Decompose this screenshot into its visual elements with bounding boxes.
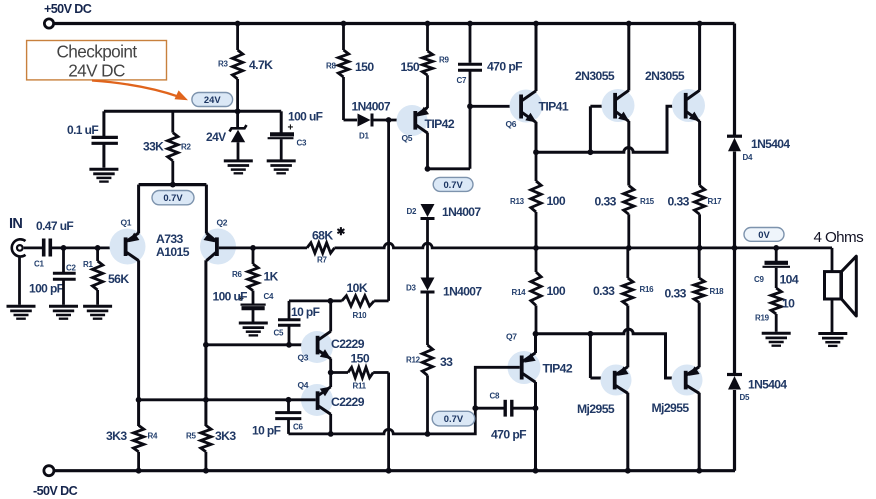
transistor Q7 halo <box>508 351 541 384</box>
wire Q2 emitter up <box>205 185 208 234</box>
svg-text:0.33: 0.33 <box>593 284 615 298</box>
node dot Q2 collector bus <box>203 342 209 348</box>
resistor R13 <box>531 181 541 212</box>
svg-text:0.7V: 0.7V <box>444 413 464 424</box>
wire Q2 collector down <box>204 260 207 426</box>
transistor Mj2955b <box>684 371 688 390</box>
node dot Q3-Q4-R11 <box>328 370 334 376</box>
svg-text:R10: R10 <box>353 311 368 320</box>
wire D5 to bottom rail <box>733 390 736 471</box>
wire Q3 emitter down <box>329 359 332 373</box>
node dot Q4 collector bus <box>328 431 334 437</box>
capacitor C5 lead <box>288 326 291 345</box>
svg-text:C2: C2 <box>66 264 76 273</box>
svg-text:C7: C7 <box>457 76 467 85</box>
diode D3 <box>421 278 435 291</box>
resistor R12 <box>422 345 432 375</box>
resistor R14 <box>531 272 541 306</box>
resistor R9 <box>422 51 432 75</box>
speaker 4 ohm <box>825 272 841 299</box>
wire Q6 collector up <box>535 24 538 92</box>
resistor R2 bottom lead <box>171 161 174 185</box>
wire 24V bus <box>104 110 281 113</box>
resistor R17 <box>694 186 704 215</box>
svg-text:C5: C5 <box>274 329 284 338</box>
svg-text:24V: 24V <box>204 94 221 105</box>
ground speaker <box>818 332 847 335</box>
resistor R8 bottom lead <box>342 77 345 120</box>
svg-text:R2: R2 <box>181 143 191 152</box>
resistor R16 top lead <box>626 248 629 278</box>
transistor Q6 halo <box>510 90 543 123</box>
transistor Q3 halo <box>301 331 333 363</box>
node dot C8 branch <box>472 405 478 411</box>
node dot Q7 collector rail <box>533 468 539 474</box>
wire output to speaker <box>831 248 834 272</box>
node dot Mj2955a base branch <box>588 331 594 337</box>
svg-text:✱: ✱ <box>337 226 346 238</box>
ground input <box>7 305 36 308</box>
wire Q7 base bias bus with hop <box>289 367 520 434</box>
resistor R3 <box>232 50 242 79</box>
wire speaker to ground <box>831 299 834 332</box>
diode D2 <box>421 204 435 217</box>
node dot Q5 collector <box>425 166 431 172</box>
svg-text:0.33: 0.33 <box>665 287 687 301</box>
wire Q1 emitter up <box>137 185 140 234</box>
wire Mj2955b emitter up <box>698 303 701 368</box>
transistor Q5 halo <box>397 105 428 136</box>
wire C9 to R19 <box>775 268 778 288</box>
resistor R1 <box>92 261 102 290</box>
svg-text:24V DC: 24V DC <box>68 61 125 81</box>
svg-text:2N3055: 2N3055 <box>575 69 615 83</box>
capacitor C1 <box>42 239 46 257</box>
node dot R3 rail <box>235 21 241 27</box>
svg-text:Q3: Q3 <box>298 353 309 363</box>
resistor R6 <box>248 264 258 291</box>
resistor R7 <box>307 243 335 253</box>
capacitor C7 <box>458 63 482 66</box>
node dot 24V <box>235 108 241 114</box>
svg-text:IN: IN <box>9 216 22 232</box>
node dot Q7 emitter <box>533 331 539 337</box>
svg-text:100: 100 <box>547 284 566 298</box>
transistor Q2 halo <box>200 229 236 265</box>
svg-text:R8: R8 <box>326 62 336 71</box>
svg-text:0V: 0V <box>758 229 770 240</box>
svg-text:R6: R6 <box>232 270 242 279</box>
checkpoint arrow <box>92 81 179 97</box>
svg-text:Q5: Q5 <box>402 133 413 143</box>
wire Q4 emitter up <box>329 373 332 388</box>
node 0.7V pill B <box>433 177 473 191</box>
resistor R1 top lead <box>96 248 99 261</box>
node dot R4 rail <box>136 468 142 474</box>
svg-text:2N3055: 2N3055 <box>645 69 685 83</box>
wire R19 to ground <box>775 314 778 332</box>
node dot Mj2955b rail <box>696 468 702 474</box>
input connector <box>12 239 26 256</box>
resistor R8 <box>338 50 348 77</box>
svg-text:1K: 1K <box>264 270 279 284</box>
capacitor C9 lead <box>775 248 778 261</box>
svg-text:C2229: C2229 <box>331 337 365 351</box>
svg-text:Checkpoint: Checkpoint <box>57 42 138 62</box>
svg-text:470 pF: 470 pF <box>487 60 522 74</box>
capacitor C8 right lead <box>514 407 536 410</box>
resistor R13 top lead <box>535 152 538 181</box>
wire R1 to ground <box>96 290 99 305</box>
svg-text:R5: R5 <box>186 432 196 441</box>
node dot 2N3055b rail <box>697 21 703 27</box>
wire Mj2955b collector down <box>698 393 701 471</box>
wire Q5c to C7 node <box>428 167 471 170</box>
node dot C9 branch <box>773 245 779 251</box>
node dot R17 output <box>697 245 703 251</box>
node dot D1-Q5 <box>386 117 392 123</box>
capacitor C8 <box>504 400 507 417</box>
svg-text:A733: A733 <box>156 232 184 246</box>
node dot Q2 collector bus2 <box>203 397 209 403</box>
resistor R18 <box>694 278 704 303</box>
resistor R13 bottom lead <box>535 212 538 248</box>
svg-text:100 uF: 100 uF <box>288 110 323 124</box>
node dot C2 <box>61 245 67 251</box>
svg-text:10 pF: 10 pF <box>291 305 320 319</box>
node 0.7V pill C <box>432 411 475 426</box>
svg-text:10 pF: 10 pF <box>252 424 281 438</box>
svg-text:10K: 10K <box>347 281 368 295</box>
transistor 2N3055a <box>613 93 617 119</box>
wire C7 node to Q6 base <box>470 105 519 108</box>
node dot Q3 collector node <box>328 298 334 304</box>
resistor R12 bottom lead <box>426 375 429 434</box>
svg-text:R11: R11 <box>353 382 367 391</box>
node dot R11 rail <box>386 468 392 474</box>
wire C4 to ground <box>252 310 255 322</box>
svg-text:150: 150 <box>401 60 420 74</box>
diode D5 <box>727 373 742 376</box>
svg-text:C8: C8 <box>490 392 500 401</box>
svg-text:100: 100 <box>547 194 566 208</box>
wire 2N3055b emitter down <box>698 121 701 186</box>
resistor R5 bottom lead <box>204 452 207 471</box>
svg-text:0.1 uF: 0.1 uF <box>67 123 98 137</box>
svg-text:33: 33 <box>440 355 453 369</box>
node 0V pill <box>744 228 784 242</box>
resistor R3 top lead <box>236 24 239 51</box>
wire top rail corner down <box>733 24 736 137</box>
wire D4 to output <box>733 152 736 248</box>
svg-text:104: 104 <box>780 273 799 287</box>
+50V supply terminal <box>44 19 53 28</box>
node dot 2N3055a rail <box>626 21 632 27</box>
svg-text:3K3: 3K3 <box>106 429 127 443</box>
capacitor C7 bottom lead <box>469 71 472 169</box>
capacitor C4 <box>241 304 266 306</box>
node dot R6 <box>250 245 256 251</box>
svg-text:R18: R18 <box>710 287 725 296</box>
svg-text:R3: R3 <box>218 59 228 68</box>
svg-text:Mj2955: Mj2955 <box>577 402 615 416</box>
zener diode 24V lead <box>236 111 239 127</box>
svg-text:C2229: C2229 <box>331 395 365 409</box>
node dot C8 to Q7 collector <box>533 405 539 411</box>
wire 0.7V tail bus <box>139 183 207 186</box>
svg-text:100 uF: 100 uF <box>213 290 248 304</box>
wire Q5 collector down <box>426 133 429 169</box>
resistor R8 top lead <box>342 24 345 51</box>
resistor R2 <box>168 133 178 161</box>
transistor Q2 <box>215 237 219 256</box>
svg-text:1N4007: 1N4007 <box>442 205 481 219</box>
resistor R10 left lead <box>330 299 341 302</box>
capacitor C5 top lead <box>288 301 291 321</box>
ground C3 <box>267 159 296 162</box>
capacitor C3 lead <box>280 111 283 132</box>
wire Q6 emitter down <box>535 122 538 152</box>
svg-text:R7: R7 <box>317 256 327 265</box>
wire output bus with hops <box>335 243 833 248</box>
node dot R1 <box>95 245 101 251</box>
capacitor C6 lead <box>287 400 290 412</box>
resistor R2 top lead <box>171 111 174 132</box>
node dot R9 rail <box>425 21 431 27</box>
transistor Q4 <box>316 391 320 410</box>
transistor Mj2955b halo <box>672 365 703 396</box>
svg-text:10: 10 <box>782 297 795 311</box>
resistor R9 top lead <box>426 24 429 52</box>
node dot D4 output <box>732 245 738 251</box>
resistor R11 right lead <box>373 371 388 374</box>
node dot Q6 collector rail <box>533 21 539 27</box>
wire output to D5 <box>733 248 736 375</box>
svg-text:D1: D1 <box>359 132 369 141</box>
diode D4 <box>727 135 742 138</box>
svg-text:C1: C1 <box>34 260 44 269</box>
resistor R6 bottom lead <box>252 291 255 304</box>
svg-text:C4: C4 <box>264 292 274 301</box>
wire D3 to R12 <box>426 293 429 346</box>
svg-text:3K3: 3K3 <box>215 429 236 443</box>
wire Mj2955a base drop <box>589 334 592 378</box>
svg-text:24V: 24V <box>206 130 226 144</box>
svg-text:0.7V: 0.7V <box>163 192 183 203</box>
svg-text:D2: D2 <box>407 207 417 216</box>
svg-text:C9: C9 <box>754 275 764 284</box>
ground R19 <box>762 332 791 335</box>
resistor R10 <box>342 296 374 306</box>
node dot Q6 emitter <box>533 149 539 155</box>
wire Q3 collector up <box>329 301 332 332</box>
svg-text:Mj2955: Mj2955 <box>652 401 690 415</box>
svg-text:56K: 56K <box>108 272 129 286</box>
resistor R11 left lead <box>331 371 348 374</box>
svg-text:0.47 uF: 0.47 uF <box>36 219 73 233</box>
wire top +50V rail <box>54 22 735 25</box>
resistor R4 <box>133 425 143 451</box>
wire input shield to ground <box>18 257 21 305</box>
svg-text:Q4: Q4 <box>298 380 309 390</box>
wire Mj2955a emitter up <box>626 306 629 368</box>
wire Q1 collector down <box>137 260 140 426</box>
node dot 2N3055a base branch <box>588 149 594 155</box>
svg-text:R9: R9 <box>439 56 449 65</box>
wire D2 to D3 <box>426 219 429 278</box>
svg-text:Q7: Q7 <box>506 332 517 342</box>
capacitor C3 <box>270 132 294 136</box>
-50V supply terminal <box>44 466 54 476</box>
ground R1 <box>83 305 112 308</box>
svg-text:150: 150 <box>351 352 370 366</box>
svg-text:+50V DC: +50V DC <box>44 2 92 16</box>
svg-text:C6: C6 <box>293 423 303 432</box>
resistor R4 bottom lead <box>137 452 140 471</box>
svg-text:-50V DC: -50V DC <box>33 484 78 498</box>
ground C2 <box>49 305 78 308</box>
svg-text:470 pF: 470 pF <box>491 428 526 442</box>
svg-text:4 Ohms: 4 Ohms <box>814 229 865 246</box>
wire bottom -50V rail <box>54 469 735 472</box>
wire VAS drive vertical <box>387 120 390 301</box>
svg-text:R17: R17 <box>708 197 723 206</box>
wire 2N3055a collector up <box>627 24 630 91</box>
wire Q5 emitter to R9 <box>426 75 429 108</box>
capacitor C6 <box>275 411 301 414</box>
wire NPN base bus with hop <box>536 106 684 152</box>
transistor 2N3055b halo <box>672 89 705 122</box>
resistor R15 <box>624 186 634 215</box>
ground 0.1uF <box>89 168 118 171</box>
svg-text:1N4007: 1N4007 <box>352 100 391 114</box>
transistor Q3 <box>316 336 320 355</box>
node dot R5 rail <box>203 468 209 474</box>
svg-text:R12: R12 <box>406 356 421 365</box>
resistor R19 <box>771 288 781 314</box>
node dot R15 output <box>626 245 632 251</box>
ground C4 <box>239 322 268 325</box>
node dot Mj2955a rail <box>625 468 631 474</box>
checkpoint annotation box <box>27 41 167 80</box>
node 24V pill <box>192 93 233 107</box>
wire PNP base bus with hop <box>536 329 684 378</box>
transistor Q1 halo <box>110 229 146 265</box>
node dot tail bus <box>170 182 176 188</box>
node dot Q6 base <box>467 103 473 109</box>
capacitor C5 <box>278 318 301 321</box>
capacitor C8 left lead <box>475 407 503 410</box>
transistor 2N3055b <box>684 93 688 119</box>
svg-text:R13: R13 <box>510 197 525 206</box>
wire input to C1 <box>24 246 42 249</box>
transistor Q4 halo <box>301 384 333 416</box>
wire 2N3055b collector up <box>698 24 701 91</box>
svg-text:R14: R14 <box>512 288 527 297</box>
wire C2 to ground <box>62 280 65 305</box>
svg-text:+: + <box>288 123 294 134</box>
node dot R12 bus <box>425 431 431 437</box>
wire Mj2955a collector down <box>626 393 629 471</box>
svg-text:Q1: Q1 <box>121 218 132 228</box>
svg-text:TIP41: TIP41 <box>539 100 569 114</box>
svg-text:TIP42: TIP42 <box>425 117 455 131</box>
transistor Q7 <box>520 356 524 380</box>
transistor Mj2955a <box>613 371 617 390</box>
svg-text:Q6: Q6 <box>506 119 517 129</box>
capacitor 0.1uF <box>92 136 118 139</box>
svg-text:R4: R4 <box>148 432 158 441</box>
wire 2N3055a emitter down <box>627 121 630 186</box>
ground zener <box>224 159 253 162</box>
transistor 2N3055a halo <box>602 89 635 122</box>
svg-text:R1: R1 <box>83 260 93 269</box>
capacitor C2 lead <box>62 248 65 272</box>
zener diode 24V <box>230 125 247 131</box>
svg-text:1N5404: 1N5404 <box>748 378 787 392</box>
wire Q2 base right <box>219 246 307 249</box>
transistor Q1 <box>124 237 128 256</box>
wire Q4 base bus <box>139 398 316 401</box>
svg-text:R19: R19 <box>755 314 770 323</box>
resistor R14 top lead <box>535 248 538 272</box>
wire 0.1uF to ground <box>102 144 105 168</box>
wire D1 to Q5 base <box>374 119 414 122</box>
resistor R16 <box>623 278 633 306</box>
svg-text:D5: D5 <box>740 393 750 402</box>
node dot R13 output <box>533 245 539 251</box>
svg-text:TIP42: TIP42 <box>543 362 573 376</box>
svg-text:R15: R15 <box>640 197 655 206</box>
node dot C5 branch <box>286 342 292 348</box>
svg-text:1N4007: 1N4007 <box>443 285 482 299</box>
svg-text:R16: R16 <box>640 285 655 294</box>
transistor Q5 <box>413 111 417 130</box>
capacitor C7 top lead <box>469 24 472 63</box>
capacitor C2 <box>53 272 76 275</box>
wire 2N3055a base drop <box>589 106 592 152</box>
resistor R14 bottom lead <box>535 306 538 334</box>
resistor R18 top lead <box>698 248 701 278</box>
svg-text:4.7K: 4.7K <box>249 58 273 72</box>
svg-text:68K: 68K <box>312 229 333 243</box>
svg-text:150: 150 <box>355 60 374 74</box>
capacitor 0.1uF lead <box>102 111 105 136</box>
wire Q7 collector down <box>534 382 537 471</box>
node 0.7V pill A <box>152 191 194 205</box>
diode D1 <box>358 114 371 127</box>
svg-text:A1015: A1015 <box>156 245 190 259</box>
transistor Q6 <box>519 95 523 119</box>
resistor R5 <box>201 425 211 451</box>
svg-text:1N5404: 1N5404 <box>751 137 790 151</box>
wire Q7 emitter up <box>534 334 537 353</box>
resistor R10 right lead <box>374 299 389 302</box>
wire C3 to ground <box>280 139 283 159</box>
node dot C6 branch <box>286 397 292 403</box>
capacitor C6 bottom lead <box>287 420 290 434</box>
svg-text:0.33: 0.33 <box>595 195 617 209</box>
resistor R17 bottom lead <box>698 214 701 248</box>
svg-text:0.33: 0.33 <box>668 195 690 209</box>
wire zener to ground <box>237 142 240 159</box>
resistor R3 bottom lead <box>236 79 239 111</box>
resistor R15 bottom lead <box>627 214 630 248</box>
svg-text:33K: 33K <box>143 140 164 154</box>
wire Q4 collector down <box>329 414 332 434</box>
resistor R11 <box>348 367 373 377</box>
resistor R6 top lead <box>252 248 255 264</box>
